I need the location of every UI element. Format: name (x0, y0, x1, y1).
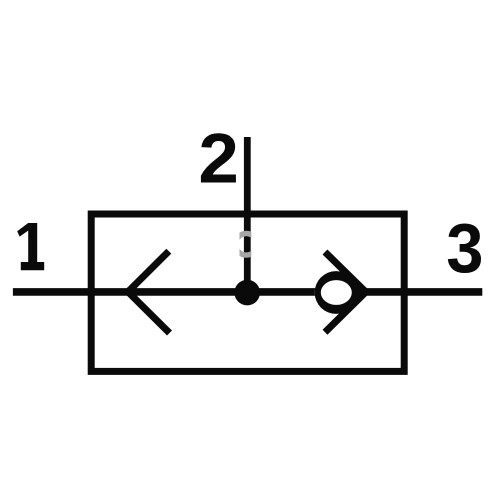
svg-text:2: 2 (198, 120, 238, 199)
svg-text:3: 3 (446, 209, 483, 288)
